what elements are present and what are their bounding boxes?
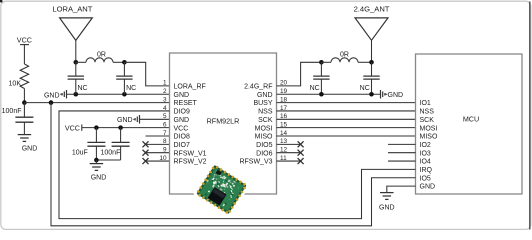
wire SCK — [277, 118, 416, 120]
no-connect X pin 10 — [146, 160, 170, 162]
svg-text:DIO5: DIO5 — [256, 142, 272, 149]
node — [369, 92, 374, 97]
ground — [18, 134, 32, 136]
wire cap commons — [96, 159, 120, 161]
capacitor NC (right shunt) — [123, 62, 125, 76]
wire IO3 stub — [388, 152, 416, 154]
svg-text:RFSW_V1: RFSW_V1 — [174, 150, 207, 157]
svg-text:BUSY: BUSY — [253, 100, 272, 107]
wire IO5 to RESET loop — [51, 103, 416, 226]
svg-text:VCC: VCC — [174, 125, 189, 132]
svg-text:10K: 10K — [9, 81, 22, 88]
svg-text:NC: NC — [360, 85, 370, 92]
node — [94, 158, 99, 163]
wire MCU GND — [387, 186, 416, 192]
svg-text:MISO: MISO — [255, 134, 273, 141]
no-connect X pin 12 — [277, 152, 301, 154]
svg-text:LORA_ANT: LORA_ANT — [52, 5, 92, 14]
ground — [380, 192, 394, 194]
capacitor NC (2.4G right shunt) — [371, 62, 373, 76]
wire antenna stem — [75, 40, 77, 62]
wire VCC rail to pin 6 — [82, 127, 170, 129]
svg-text:100nF: 100nF — [101, 150, 121, 157]
svg-text:1: 1 — [163, 80, 167, 87]
node — [319, 60, 324, 65]
svg-text:9: 9 — [163, 147, 167, 154]
capacitor 100nF (reset filter) — [23, 103, 25, 118]
svg-text:2.4G_RF: 2.4G_RF — [244, 84, 272, 91]
wire IRQ to DIO9 loop — [59, 111, 416, 219]
svg-text:NSS: NSS — [420, 109, 435, 116]
wire IO2 stub — [388, 143, 416, 145]
svg-text:NSS: NSS — [258, 109, 273, 116]
svg-text:NC: NC — [310, 85, 320, 92]
svg-text:MCU: MCU — [463, 115, 479, 124]
inductor 0R (2.4G match) — [321, 61, 331, 63]
svg-text:2.4G_ANT: 2.4G_ANT — [354, 5, 390, 14]
svg-text:GND: GND — [257, 92, 273, 99]
svg-text:SCK: SCK — [258, 117, 273, 124]
svg-text:IO4: IO4 — [420, 159, 431, 166]
node — [122, 60, 127, 65]
capacitor NC (2.4G left shunt) — [320, 62, 322, 76]
svg-text:MOSI: MOSI — [420, 125, 438, 132]
svg-text:7: 7 — [163, 130, 167, 137]
photo RFM92 module PCB — [195, 163, 249, 215]
node: 10K / RESET / 100nF junction — [22, 100, 27, 105]
svg-text:0R: 0R — [340, 52, 349, 59]
svg-text:RESET: RESET — [174, 100, 198, 107]
svg-text:DIO9: DIO9 — [174, 109, 190, 116]
no-connect X pin 8 — [146, 143, 170, 145]
wire BUSY to IO1 — [277, 102, 416, 104]
svg-text:10: 10 — [159, 155, 167, 162]
node — [94, 125, 99, 130]
wire — [23, 89, 25, 103]
svg-text:6: 6 — [163, 121, 167, 128]
svg-text:MISO: MISO — [420, 134, 438, 141]
ground — [95, 160, 97, 163]
svg-text:100nF: 100nF — [2, 108, 22, 115]
svg-text:GND: GND — [44, 92, 60, 99]
wire pin 19 GND net — [277, 93, 381, 95]
svg-text:DIO8: DIO8 — [174, 134, 190, 141]
svg-text:GND: GND — [91, 175, 107, 182]
capacitor NC (left shunt) — [75, 62, 77, 76]
node: RESET / IO5 loop junction — [49, 100, 54, 105]
wire pin 7 stub — [146, 135, 170, 137]
svg-text:NC: NC — [78, 85, 88, 92]
op RFM92LR module body U1 — [170, 53, 277, 194]
svg-text:GND: GND — [117, 117, 133, 124]
svg-text:NC: NC — [126, 85, 136, 92]
wire IO4 stub — [388, 160, 416, 162]
node — [74, 92, 79, 97]
svg-text:IRQ: IRQ — [420, 167, 433, 174]
node — [74, 60, 79, 65]
node — [319, 92, 324, 97]
wire antenna stem — [371, 40, 373, 62]
capacitor 100nF (decoupling) — [120, 128, 122, 143]
wire NSS — [277, 110, 416, 112]
resistor 10K — [20, 64, 28, 89]
svg-text:10uF: 10uF — [72, 150, 88, 157]
svg-text:MOSI: MOSI — [255, 125, 273, 132]
node — [118, 125, 123, 130]
svg-text:LORA_RF: LORA_RF — [174, 84, 206, 91]
wire MOSI — [277, 127, 416, 129]
wire — [23, 44, 25, 64]
svg-text:8: 8 — [163, 138, 167, 145]
node — [369, 60, 374, 65]
svg-text:RFSW_V2: RFSW_V2 — [174, 159, 207, 166]
svg-text:IO1: IO1 — [420, 100, 431, 107]
wire pin 5 stub — [140, 118, 170, 120]
no-connect X pin 9 — [146, 152, 170, 154]
svg-text:IO5: IO5 — [420, 175, 431, 182]
wire pin 20 to matching network — [277, 62, 322, 86]
wire MISO — [277, 135, 416, 137]
svg-text:VCC: VCC — [17, 35, 32, 44]
svg-text:GND: GND — [174, 92, 190, 99]
svg-text:VCC: VCC — [65, 123, 80, 132]
frame corner mark — [0, 0, 2, 2]
wire to pin 1 LORA_RF — [124, 62, 169, 86]
svg-text:DIO6: DIO6 — [256, 150, 272, 157]
svg-text:DIO7: DIO7 — [174, 142, 190, 149]
svg-text:IO2: IO2 — [420, 142, 431, 149]
frame right dark edge — [529, 2, 531, 230]
svg-text:GND: GND — [174, 117, 190, 124]
svg-text:3: 3 — [163, 96, 167, 103]
no-connect X pin 11 — [277, 160, 301, 162]
wire RESET net — [24, 102, 169, 104]
svg-text:GND: GND — [22, 146, 38, 153]
svg-text:IO3: IO3 — [420, 150, 431, 157]
svg-text:GND: GND — [379, 205, 395, 212]
no-connect X pin 13 — [277, 143, 301, 145]
ground (sideways, pin 19 net) — [380, 90, 382, 99]
svg-text:SCK: SCK — [420, 117, 435, 124]
capacitor 10uF — [95, 128, 97, 143]
wire GND net to pin 2 — [67, 93, 170, 95]
node — [122, 92, 127, 97]
svg-text:2: 2 — [163, 88, 167, 95]
inductor 0R (LoRa match) — [76, 61, 86, 63]
svg-text:RFM92LR: RFM92LR — [207, 116, 240, 125]
svg-text:GND: GND — [388, 92, 404, 99]
op MCU body U2 — [416, 54, 523, 194]
svg-text:RFSW_V3: RFSW_V3 — [239, 159, 272, 166]
svg-text:0R: 0R — [97, 52, 106, 59]
svg-text:GND: GND — [420, 184, 436, 191]
svg-text:5: 5 — [163, 113, 167, 120]
